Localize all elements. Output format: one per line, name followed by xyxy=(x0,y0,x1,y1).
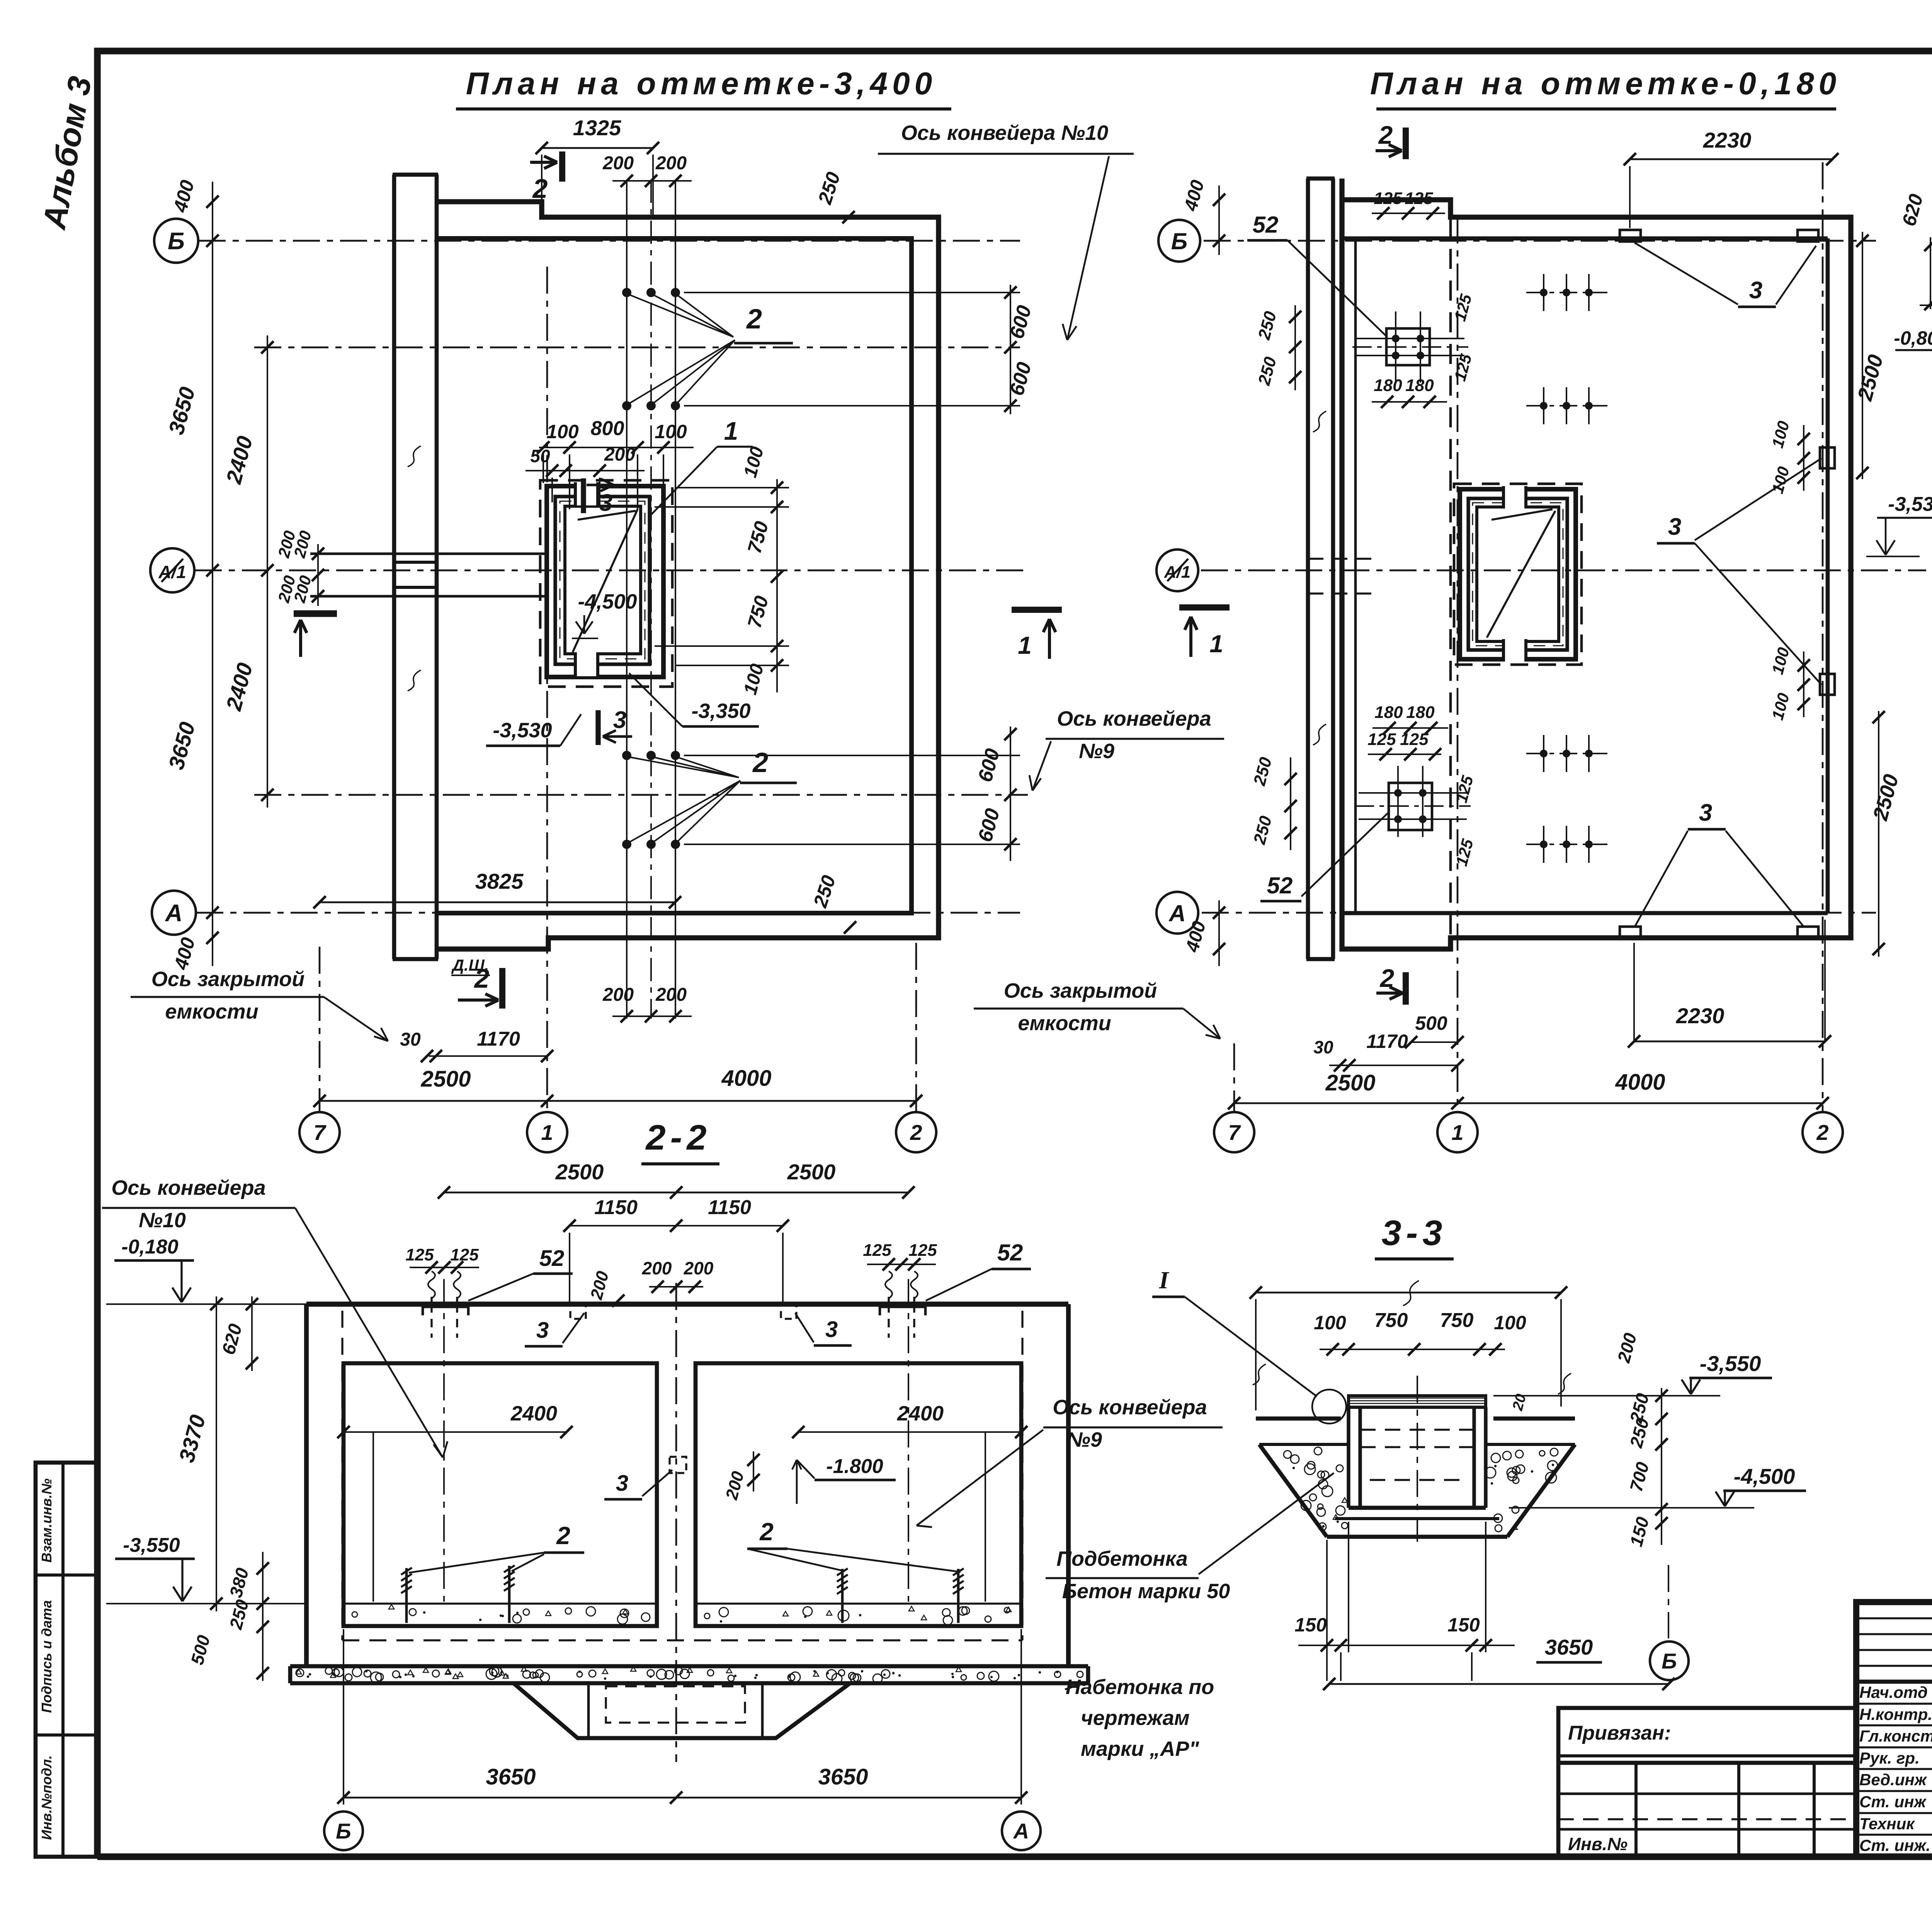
2-2 chamber floor bands xyxy=(344,1602,657,1604)
section mark 3 (plan1 upper) xyxy=(581,478,586,513)
anchor dots row 4 xyxy=(622,840,631,849)
svg-text:1: 1 xyxy=(1451,1120,1463,1145)
2-2 top slab xyxy=(306,1301,1068,1306)
svg-text:200: 200 xyxy=(602,153,634,173)
svg-text:1150: 1150 xyxy=(594,1196,638,1219)
svg-text:2: 2 xyxy=(1816,1120,1828,1145)
svg-text:2: 2 xyxy=(1378,121,1393,149)
svg-text:2500: 2500 xyxy=(420,1067,471,1092)
svg-text:7: 7 xyxy=(313,1120,327,1145)
wall tie lower right (plan2) xyxy=(1820,674,1835,695)
svg-text:-3,530: -3,530 xyxy=(493,719,552,742)
svg-text:52: 52 xyxy=(1253,212,1279,238)
left dim chain (plan1 inner 2400) xyxy=(267,335,268,808)
2-2 hidden wall lines xyxy=(341,1311,343,1640)
svg-text:2: 2 xyxy=(1379,964,1395,992)
axis 2 (plan2) xyxy=(1822,162,1824,1111)
grid axis A (plan1) xyxy=(196,912,1020,914)
svg-text:3650: 3650 xyxy=(486,1764,536,1789)
svg-text:1170: 1170 xyxy=(1366,1031,1408,1052)
svg-text:200: 200 xyxy=(604,444,635,465)
svg-text:100: 100 xyxy=(1494,1312,1526,1334)
title block outer xyxy=(1856,1602,1932,1857)
grid axis B (plan1) xyxy=(199,240,1020,242)
plan1 wall crossing segments at A/1 xyxy=(396,561,437,564)
svg-text:2400: 2400 xyxy=(897,1402,944,1425)
svg-text:Ось конвейера: Ось конвейера xyxy=(1057,707,1211,730)
rebar hooks (2-2) xyxy=(405,1568,408,1623)
svg-text:№9: №9 xyxy=(1079,740,1114,763)
svg-text:3: 3 xyxy=(613,707,626,733)
axis circle A (2-2) xyxy=(1002,1812,1041,1850)
svg-text:30: 30 xyxy=(1313,1037,1333,1057)
grid axis A/1 (plan2) xyxy=(1201,570,1926,572)
pit (plan2) ramp diagonal xyxy=(1487,511,1555,638)
svg-text:750: 750 xyxy=(1440,1309,1474,1332)
svg-text:Техник: Техник xyxy=(1859,1815,1915,1833)
elevation -0,800 xyxy=(1920,304,1932,306)
section mark 3 (plan1 lower) xyxy=(595,710,600,745)
svg-text:52: 52 xyxy=(997,1240,1023,1266)
pit chain extension lines (plan1) xyxy=(676,487,789,488)
svg-text:3: 3 xyxy=(1749,277,1762,304)
svg-text:800: 800 xyxy=(591,417,624,440)
svg-text:I: I xyxy=(1159,1266,1170,1294)
svg-text:200: 200 xyxy=(655,153,687,173)
plan2 inner wall lines xyxy=(1342,236,1828,241)
grid axis B (plan2) xyxy=(1204,240,1876,242)
section mark 1 (between plans, right) xyxy=(1179,604,1230,611)
svg-text:Вед.инж: Вед.инж xyxy=(1859,1771,1927,1789)
2-2 pit trapezoid xyxy=(514,1683,850,1738)
2-2 bottom slab xyxy=(290,1664,1088,1669)
svg-text:План на отметке-3,400: План на отметке-3,400 xyxy=(466,66,937,101)
dim chain 600/600 upper right xyxy=(1010,285,1011,414)
svg-text:А: А xyxy=(1013,1819,1029,1843)
anchor dots row 1 xyxy=(622,288,631,297)
svg-text:125: 125 xyxy=(405,1245,434,1264)
svg-text:Б: Б xyxy=(1662,1649,1677,1673)
pit (plan1) wall box xyxy=(555,497,650,664)
svg-text:2400: 2400 xyxy=(510,1402,557,1425)
svg-text:50: 50 xyxy=(530,446,550,466)
svg-text:1325: 1325 xyxy=(573,116,621,140)
anchor dots row 2 xyxy=(622,401,631,410)
pit (plan2) wall box xyxy=(1468,498,1567,650)
section mark 1 (plan1 internal) xyxy=(294,610,337,617)
corner pocket bottom-right (plan2) xyxy=(1798,927,1818,938)
2-2 left chamber xyxy=(344,1363,657,1626)
svg-text:125: 125 xyxy=(1374,189,1402,208)
3-3 top dim line xyxy=(1256,1292,1561,1294)
pit (plan2) bottom notch xyxy=(1503,639,1526,662)
svg-text:2-2: 2-2 xyxy=(645,1118,711,1157)
2-2 center axis xyxy=(675,1283,677,1762)
svg-text:Б: Б xyxy=(336,1819,351,1843)
svg-text:Ось конвейера №10: Ось конвейера №10 xyxy=(901,121,1108,145)
svg-text:А: А xyxy=(1168,900,1185,926)
svg-text:Б: Б xyxy=(168,228,185,255)
svg-text:52: 52 xyxy=(1267,873,1293,898)
elevation -0,180 (2-2) xyxy=(106,1303,306,1305)
svg-text:3650: 3650 xyxy=(818,1764,868,1789)
svg-text:4000: 4000 xyxy=(1615,1070,1665,1095)
svg-text:3: 3 xyxy=(599,490,612,516)
svg-text:2230: 2230 xyxy=(1676,1004,1725,1028)
pit right dim chain (plan1) xyxy=(776,479,778,692)
svg-text:125: 125 xyxy=(1405,189,1433,208)
svg-text:Взам.инв.№: Взам.инв.№ xyxy=(39,1478,54,1563)
svg-text:1150: 1150 xyxy=(708,1196,751,1219)
svg-text:№10: №10 xyxy=(139,1209,186,1232)
2-2 anchor bolts xyxy=(428,1271,435,1298)
svg-text:3: 3 xyxy=(1668,514,1681,540)
section mark 2 (plan1 top) xyxy=(559,151,565,182)
closed tank wall strip (plan2) xyxy=(1306,179,1310,959)
svg-text:3: 3 xyxy=(616,1471,628,1496)
dim chain 600/600 lower right xyxy=(1010,726,1011,861)
svg-text:2230: 2230 xyxy=(1703,128,1752,152)
left margin stamp boxes xyxy=(36,1463,97,1857)
svg-text:Подбетонка: Подбетонка xyxy=(1056,1547,1188,1570)
svg-text:3: 3 xyxy=(1699,799,1712,826)
3-3 pit floor xyxy=(1349,1506,1486,1510)
svg-text:750: 750 xyxy=(1374,1309,1408,1332)
3-3 hidden lines xyxy=(1360,1429,1474,1431)
svg-text:-0,180: -0,180 xyxy=(121,1236,179,1258)
plan2 outer wall xyxy=(1342,179,1851,949)
svg-text:200: 200 xyxy=(602,985,634,1005)
3-3 axis B vertical xyxy=(1668,1565,1669,1638)
svg-text:Подпись и дата: Подпись и дата xyxy=(39,1600,54,1713)
elevation -3,550 (3-3) xyxy=(1493,1395,1720,1397)
3-3 podbetonka outline xyxy=(1259,1443,1349,1446)
svg-text:2: 2 xyxy=(556,1522,570,1550)
left dim chain (plan1 outer) xyxy=(212,182,213,966)
svg-text:2: 2 xyxy=(752,747,768,778)
pit (plan2) dashed outline xyxy=(1454,484,1582,665)
pit (plan1) inner box xyxy=(565,506,641,654)
svg-text:№9: №9 xyxy=(1066,1428,1102,1451)
axis 7 (plan1) xyxy=(319,947,321,1111)
closed tank wall strip (plan1 left) xyxy=(392,175,396,959)
svg-text:Набетонка по: Набетонка по xyxy=(1066,1675,1214,1699)
svg-text:3: 3 xyxy=(536,1318,549,1343)
wall tie upper right (plan2) xyxy=(1820,447,1835,468)
svg-text:1: 1 xyxy=(541,1120,553,1145)
svg-text:чертежам: чертежам xyxy=(1081,1706,1190,1730)
2-2 conveyor axis verticals xyxy=(443,1279,445,1602)
svg-text:2500: 2500 xyxy=(1325,1070,1375,1095)
svg-text:1: 1 xyxy=(1209,630,1223,658)
svg-text:180: 180 xyxy=(1374,376,1402,395)
svg-text:-3,350: -3,350 xyxy=(691,699,750,723)
svg-text:7: 7 xyxy=(1228,1120,1241,1145)
svg-text:Бетон марки 50: Бетон марки 50 xyxy=(1062,1580,1230,1603)
axis 7 (plan2) xyxy=(1233,1043,1235,1111)
svg-text:-4,500: -4,500 xyxy=(1734,1464,1795,1488)
section mark 2 (plan2 top) xyxy=(1403,128,1409,159)
svg-text:3-3: 3-3 xyxy=(1382,1213,1447,1253)
svg-text:Н.контр.: Н.контр. xyxy=(1859,1705,1932,1723)
svg-text:100: 100 xyxy=(1314,1312,1346,1334)
2-2 right chamber xyxy=(696,1363,1021,1626)
leader 2 (upper anchors) xyxy=(627,294,733,337)
svg-text:Ось закрытой: Ось закрытой xyxy=(151,968,304,991)
anchor bolt group upper (plan2) xyxy=(1386,328,1430,365)
svg-text:3825: 3825 xyxy=(475,869,524,893)
3-3 pit walls xyxy=(1347,1407,1350,1508)
svg-text:125: 125 xyxy=(1400,730,1429,749)
svg-text:30: 30 xyxy=(400,1029,421,1050)
svg-text:2500: 2500 xyxy=(787,1160,836,1184)
svg-text:180: 180 xyxy=(1406,703,1435,722)
svg-text:Инв.№подл.: Инв.№подл. xyxy=(39,1755,54,1840)
axis circle B (2-2) xyxy=(324,1812,363,1850)
axis 1 (plan1) xyxy=(546,267,548,1111)
svg-text:2: 2 xyxy=(746,304,762,335)
svg-text:1: 1 xyxy=(724,417,738,445)
3-3 ground lines xyxy=(1256,1417,1341,1421)
svg-text:2: 2 xyxy=(532,173,548,204)
svg-text:Нач.отд: Нач.отд xyxy=(1859,1683,1928,1701)
anchor column lines (plan1) xyxy=(626,180,628,1019)
pit (plan1) ramp diagonal xyxy=(573,509,638,652)
corner pocket top-right (plan2) xyxy=(1798,230,1818,242)
svg-text:-3,530: -3,530 xyxy=(1888,493,1932,515)
svg-text:180: 180 xyxy=(1374,703,1403,722)
svg-text:125: 125 xyxy=(1367,730,1396,749)
svg-text:Ось закрытой: Ось закрытой xyxy=(1004,979,1157,1002)
anchor bolt group lower (plan2) xyxy=(1389,783,1432,830)
svg-text:А: А xyxy=(165,900,183,927)
pit (plan2) top notch xyxy=(1503,486,1526,509)
section mark 1 (between plans, left) xyxy=(1012,607,1062,613)
section mark 2 (plan1 bottom) xyxy=(499,968,505,1009)
anchor dots row 3 xyxy=(622,751,631,760)
svg-text:емкости: емкости xyxy=(1018,1012,1111,1035)
axis circle B (3-3) xyxy=(1650,1641,1689,1680)
svg-text:Рук. гр.: Рук. гр. xyxy=(1859,1749,1920,1767)
svg-text:Гл.конст.: Гл.конст. xyxy=(1859,1727,1932,1745)
plan1 outer wall xyxy=(437,202,939,949)
svg-text:Ось конвейера: Ось конвейера xyxy=(1053,1396,1207,1419)
svg-text:Инв.№: Инв.№ xyxy=(1568,1834,1628,1854)
axis 2 (plan1) xyxy=(915,943,917,1111)
svg-text:2: 2 xyxy=(759,1518,774,1546)
3-3 center axis xyxy=(1417,1376,1418,1542)
svg-text:Д.Ш.: Д.Ш. xyxy=(451,956,489,974)
svg-text:Привязан:: Привязан: xyxy=(1568,1722,1671,1744)
3-3 cover slab xyxy=(1349,1396,1486,1407)
corner pocket top-left (plan2) xyxy=(1620,230,1641,242)
svg-text:-1.800: -1.800 xyxy=(826,1455,883,1478)
pit (plan2) outer box xyxy=(1460,489,1576,659)
svg-text:2500: 2500 xyxy=(555,1160,604,1184)
privyazan box xyxy=(1558,1708,1856,1857)
row extension lines (plan1 right) xyxy=(684,292,1020,293)
pit (plan1) bottom notch xyxy=(575,652,598,676)
corner pocket bottom-left (plan2) xyxy=(1620,927,1641,938)
pit (plan1) dashed outline xyxy=(540,480,672,687)
svg-text:1: 1 xyxy=(1018,631,1032,659)
3-3 podbetonka dots left xyxy=(1333,1515,1338,1519)
svg-text:500: 500 xyxy=(1415,1012,1447,1034)
pit (plan1) outer box xyxy=(547,486,663,677)
3-3 podbetonka dots right xyxy=(1513,1477,1519,1483)
svg-text:1170: 1170 xyxy=(477,1028,520,1050)
conveyor axis No9 line (plan1) xyxy=(254,794,1028,796)
svg-text:200: 200 xyxy=(642,1258,672,1278)
pit (plan2) inner box xyxy=(1477,507,1559,641)
plan1 inner wall xyxy=(437,238,912,913)
grid axis A (plan2) xyxy=(1202,912,1876,914)
svg-text:100: 100 xyxy=(546,421,579,442)
svg-text:200: 200 xyxy=(655,985,687,1005)
elevation -3,550 (2-2) xyxy=(106,1603,306,1604)
svg-text:3650: 3650 xyxy=(1545,1635,1593,1659)
svg-text:-3,550: -3,550 xyxy=(1700,1351,1761,1376)
detail circle (3-3) xyxy=(1312,1390,1346,1424)
svg-text:125: 125 xyxy=(863,1241,891,1260)
svg-text:План на отметке-0,180: План на отметке-0,180 xyxy=(1370,66,1841,101)
rebar cross groups (plan2) xyxy=(1526,292,1607,293)
svg-text:марки „АР": марки „АР" xyxy=(1081,1737,1199,1761)
svg-text:-4,500: -4,500 xyxy=(578,590,637,613)
svg-text:Б: Б xyxy=(1171,228,1187,254)
svg-text:125: 125 xyxy=(450,1245,479,1264)
svg-text:150: 150 xyxy=(1447,1614,1480,1636)
svg-text:150: 150 xyxy=(1294,1614,1327,1636)
svg-text:4000: 4000 xyxy=(721,1066,771,1091)
svg-text:2: 2 xyxy=(910,1120,922,1145)
svg-text:180: 180 xyxy=(1405,376,1434,395)
plan2 hidden wall line xyxy=(1449,217,1452,938)
leader 2 (lower anchors) xyxy=(627,757,739,777)
conveyor axis No10 line (plan1) xyxy=(254,347,1020,349)
svg-text:100: 100 xyxy=(655,421,687,442)
svg-text:200: 200 xyxy=(684,1258,714,1278)
plan2 wall crossing dashes at A/1 xyxy=(1308,558,1376,560)
3-3 right dim chain xyxy=(1661,1388,1662,1545)
svg-text:3: 3 xyxy=(825,1317,838,1342)
pit (plan1) top notch xyxy=(575,482,598,505)
svg-text:52: 52 xyxy=(539,1246,565,1271)
title block signature grid xyxy=(1856,1617,1932,1619)
svg-text:емкости: емкости xyxy=(165,1000,258,1023)
2-2 outer walls xyxy=(304,1304,309,1665)
section mark 2 (plan2 bottom) xyxy=(1403,972,1409,1005)
svg-text:Ст. инж.: Ст. инж. xyxy=(1859,1836,1930,1854)
elevation -4,500 (3-3) xyxy=(1509,1507,1754,1509)
svg-text:-0,800: -0,800 xyxy=(1894,327,1932,349)
axis 1 (plan2) xyxy=(1457,216,1459,1111)
svg-text:125: 125 xyxy=(908,1241,937,1260)
conveyor stub at A/1 (plan1) xyxy=(310,553,547,555)
svg-text:-3,550: -3,550 xyxy=(123,1534,180,1556)
svg-text:Ст. инж: Ст. инж xyxy=(1859,1793,1927,1811)
svg-text:Ось конвейера: Ось конвейера xyxy=(111,1176,265,1199)
grid axis A/1 (plan1) xyxy=(195,570,1028,572)
